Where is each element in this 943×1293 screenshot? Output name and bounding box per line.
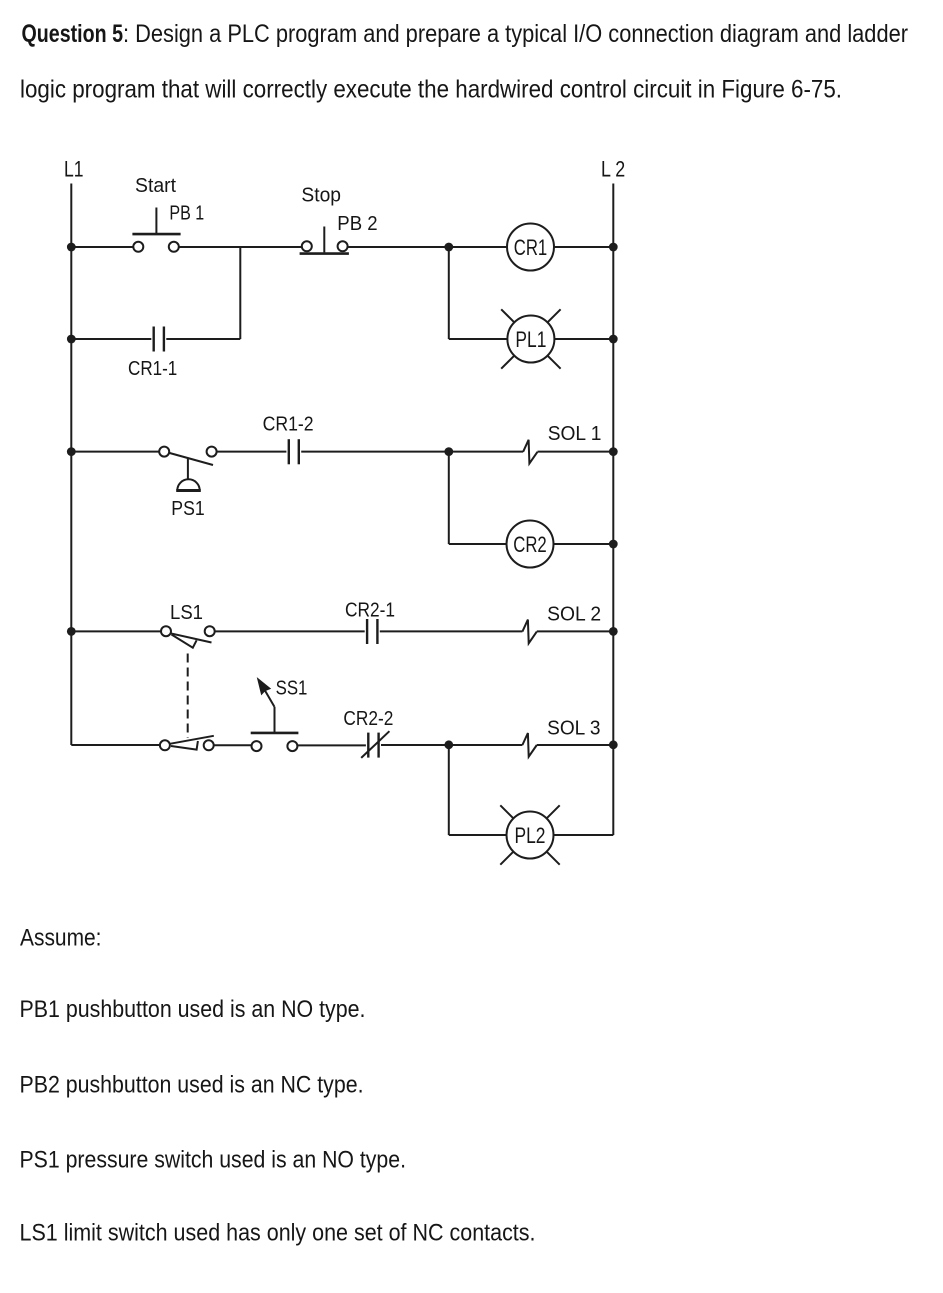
limit switch LS1 (NC): [161, 626, 215, 648]
svg-text:Start: Start: [135, 175, 176, 197]
wire rung2 left: [71, 451, 159, 453]
svg-text:SOL 2: SOL 2: [547, 604, 601, 626]
node junction L1-rung2: [67, 447, 76, 456]
pushbutton PB1 (NO): [132, 208, 180, 252]
wire CR2-L2: [553, 543, 613, 545]
node junction CR2-L2: [609, 540, 618, 549]
wire CR1-2 to SOL1: [301, 451, 523, 453]
svg-text:SOL 1: SOL 1: [548, 423, 602, 445]
svg-text:PS1: PS1: [171, 498, 204, 520]
node junction CR1-L2: [609, 243, 618, 252]
svg-text:LS1 limit switch used has only: LS1 limit switch used has only one set o…: [20, 1220, 536, 1247]
wire CR1-1 branch vertical: [239, 247, 241, 339]
svg-text:PB 1: PB 1: [169, 203, 204, 225]
wire PS1-CR1-2: [217, 451, 287, 453]
wire SOL1-L2: [538, 451, 614, 453]
lamp PL2: [500, 805, 559, 864]
contact CR1-2 (NO): [289, 439, 299, 464]
coil CR2: [507, 521, 554, 568]
selector switch SS1: [251, 678, 299, 751]
lamp PL1: [501, 309, 560, 368]
wire CR1-L2: [554, 246, 614, 248]
coil CR1: [507, 224, 554, 271]
svg-text:PL2: PL2: [515, 823, 546, 848]
wire CR2-1 to SOL2: [380, 630, 523, 632]
pressure switch PS1 (NO): [159, 447, 216, 491]
node junction rung2-CR2 branch: [444, 447, 453, 456]
wire PL1-L2: [554, 338, 613, 340]
solenoid SOL1 symbol: [523, 440, 537, 464]
pushbutton PB2 (NC): [300, 227, 349, 254]
node junction PL1-L2: [609, 335, 618, 344]
node junction SOL3-L2: [609, 740, 618, 749]
wire PB1-PB2: [179, 246, 302, 248]
node junction L1-CR1-1: [67, 335, 76, 344]
wire L2 rail: [612, 184, 614, 746]
node junction L1-rung3: [67, 627, 76, 636]
wire CR2 branch left: [449, 543, 507, 545]
wire CR1-1 right: [166, 338, 240, 340]
wire to SS1: [214, 744, 252, 746]
wire LS1-CR2-1: [215, 630, 365, 632]
wire link dashed LS1: [187, 654, 189, 739]
solenoid SOL2 symbol: [522, 620, 536, 644]
wire rung1 left: [71, 246, 133, 248]
svg-text:CR2-2: CR2-2: [343, 708, 393, 730]
wire PL2 branch vertical left: [448, 745, 450, 835]
node junction rung1-PL1 branch: [444, 243, 453, 252]
svg-text:LS1: LS1: [170, 602, 203, 624]
svg-text:PB2 pushbutton used is an NC t: PB2 pushbutton used is an NC type.: [20, 1072, 364, 1099]
svg-text:logic program that will correc: logic program that will correctly execut…: [20, 76, 842, 104]
wire PL2 branch left: [449, 834, 507, 836]
wire PB2-CR1: [348, 246, 508, 248]
wire L2 extension to PL2: [612, 745, 614, 835]
svg-text:CR1: CR1: [514, 235, 548, 260]
svg-text:PB 2: PB 2: [337, 213, 377, 235]
node junction SOL2-L2: [609, 627, 618, 636]
node junction rung4-PL2 branch: [444, 740, 453, 749]
wire SS1-CR2-2: [297, 744, 366, 746]
wire CR2-2 to SOL3: [381, 744, 522, 746]
node junction L1-rung1: [67, 243, 76, 252]
svg-text:L 2: L 2: [601, 156, 625, 181]
svg-text:CR1-2: CR1-2: [263, 414, 314, 436]
limit switch LS1 second pole (NO held closed): [160, 736, 214, 751]
contact CR2-1 (NO): [367, 619, 377, 644]
contact CR2-2 (NC): [361, 731, 389, 758]
solenoid SOL3 symbol: [522, 733, 536, 757]
svg-text:PS1 pressure switch used is an: PS1 pressure switch used is an NO type.: [20, 1146, 407, 1173]
wire SOL3-L2: [537, 744, 614, 746]
svg-text:L1: L1: [64, 156, 84, 181]
wire rung4 left: [71, 744, 160, 746]
svg-text:CR2-1: CR2-1: [345, 600, 395, 622]
svg-text:Assume:: Assume:: [20, 925, 102, 952]
wire L1 rail: [70, 184, 72, 746]
wire PL2-L2: [553, 834, 613, 836]
wire SOL2-L2: [537, 630, 614, 632]
wire PL1 branch left: [449, 338, 508, 340]
svg-text:Question 5: Design a PLC progr: Question 5: Design a PLC program and pre…: [22, 20, 909, 48]
svg-text:CR1-1: CR1-1: [128, 358, 177, 380]
wire PL1 branch vertical: [448, 247, 450, 339]
svg-text:SS1: SS1: [276, 678, 308, 700]
svg-text:CR2: CR2: [513, 532, 547, 557]
svg-text:PL1: PL1: [515, 327, 546, 352]
wire CR2 branch vertical: [448, 452, 450, 544]
contact CR1-1 (NO): [154, 327, 164, 352]
svg-text:Stop: Stop: [301, 185, 341, 207]
node junction SOL1-L2: [609, 447, 618, 456]
wire rung3 left: [71, 630, 161, 632]
svg-text:PB1 pushbutton used is an NO t: PB1 pushbutton used is an NO type.: [20, 996, 366, 1023]
svg-text:SOL 3: SOL 3: [547, 718, 600, 740]
wire CR1-1 branch left: [71, 338, 151, 340]
